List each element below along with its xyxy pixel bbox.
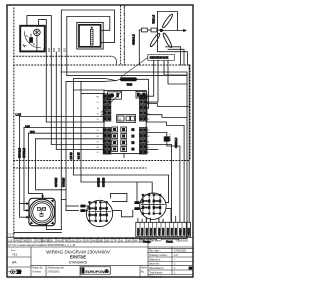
junction box dashed label xyxy=(148,54,175,60)
svg-text:BX: BX xyxy=(141,239,145,242)
wire M1 top feed xyxy=(42,194,44,199)
title text xyxy=(11,249,111,265)
compressor M1 winding circles xyxy=(29,199,55,225)
svg-text:AA: AA xyxy=(12,261,17,265)
svg-text:GY041.5: GY041.5 xyxy=(151,228,153,235)
svg-text:CA: CA xyxy=(78,239,82,242)
svg-text:BI: BI xyxy=(50,239,53,242)
terminal board X1 lower contact columns xyxy=(112,127,134,152)
fan motor M4 blade down-right xyxy=(162,32,173,48)
twisted pair node xyxy=(105,78,120,81)
wire M3 right out xyxy=(166,209,171,223)
labels left of board xyxy=(97,97,100,154)
svg-text:GY131.5: GY131.5 xyxy=(188,228,190,235)
wire fan bottom links xyxy=(166,47,181,65)
boundary dotted line left vertical xyxy=(13,8,15,236)
wire right long bus xyxy=(188,65,190,222)
compressor M3 terminal grid xyxy=(141,194,164,214)
thermostat B1 dial arc xyxy=(23,32,41,48)
svg-text:Ban sheet: Ban sheet xyxy=(150,239,161,242)
boundary dotted short vertical xyxy=(120,6,122,65)
heater B2 outer wire loop xyxy=(61,10,114,72)
svg-text:Drawing number :: Drawing number : xyxy=(149,254,168,257)
svg-text:2.5 15: 2.5 15 xyxy=(70,152,73,160)
boundary curve join xyxy=(112,56,117,65)
heater B2 second wire loop xyxy=(67,17,110,76)
wire labels at riser bundle xyxy=(43,47,66,52)
svg-text:EP9TDE: EP9TDE xyxy=(70,255,86,260)
wire M1 bottom and right xyxy=(46,226,61,230)
terminal strip X2 xyxy=(136,216,191,243)
terminal board X1 relay sub box xyxy=(117,115,136,123)
svg-text:Drawn by: Drawn by xyxy=(32,267,43,270)
svg-text:GY0715: GY0715 xyxy=(103,177,106,187)
wire junction drops to bus xyxy=(146,60,187,102)
svg-text:GY021.5: GY021.5 xyxy=(142,228,144,235)
boundary dash-dot vertical at cable entry xyxy=(123,6,125,65)
thermostat B1 box xyxy=(20,26,45,52)
wire M2 right out xyxy=(113,210,133,217)
svg-text:27/03/2003: 27/03/2003 xyxy=(174,250,187,253)
svg-text:GY101.5: GY101.5 xyxy=(176,228,178,235)
terminal board X1 top terminal left xyxy=(108,92,122,99)
svg-text:OR: OR xyxy=(85,239,89,242)
terminal board X1 top terminal right xyxy=(136,91,146,98)
svg-text:WH 1.5: WH 1.5 xyxy=(152,14,156,23)
terminal board X1 leader xyxy=(101,91,123,116)
svg-text:4GBA1.5: 4GBA1.5 xyxy=(175,137,178,148)
svg-text:Zeichnungs dat.: Zeichnungs dat. xyxy=(47,267,64,270)
svg-text:TR: TR xyxy=(113,239,116,242)
svg-text:GY091.5: GY091.5 xyxy=(172,228,174,235)
svg-text:GY011.5: GY011.5 xyxy=(138,228,140,235)
heater B2 element xyxy=(90,29,93,45)
svg-text:Norm: Norm xyxy=(141,267,147,270)
svg-text:Cond.: Cond. xyxy=(166,239,173,243)
fan motor M4 blade down-left xyxy=(149,32,161,47)
connector M2 left plugs xyxy=(80,205,85,208)
boundary dotted line right vertical xyxy=(189,65,191,160)
svg-text:+23/9/2003: +23/9/2003 xyxy=(176,239,189,242)
compressor M3 circle xyxy=(140,193,166,219)
svg-text:GY031.5: GY031.5 xyxy=(146,228,148,235)
terminal board X1 outline xyxy=(104,91,146,154)
wire M1 left feeds xyxy=(20,116,30,218)
svg-text:Total sheets :: Total sheets : xyxy=(149,271,163,274)
svg-text:JUNCTION BOX: JUNCTION BOX xyxy=(150,57,169,60)
svg-text:BB: BB xyxy=(99,239,103,242)
svg-text:TBC: TBC xyxy=(64,239,69,242)
svg-text:LHT du 4 modele standard insta: LHT du 4 modele standard installation ER… xyxy=(8,244,75,247)
svg-text:N1.5: N1.5 xyxy=(30,131,35,133)
wire mid verticals to M2 xyxy=(66,78,169,210)
wire riser 3 xyxy=(55,52,57,149)
wire fan arrow out xyxy=(163,30,184,32)
svg-text:ALL: ALL xyxy=(71,239,76,242)
svg-text:GY041.5: GY041.5 xyxy=(18,148,21,158)
maker logo xyxy=(81,267,111,274)
svg-text:Issue del :: Issue del : xyxy=(149,263,160,266)
heater B2 box outer xyxy=(77,22,103,49)
terminal board X1 right terminal column xyxy=(139,94,147,154)
svg-text:GY051.5: GY051.5 xyxy=(23,148,26,158)
svg-text:Material nr :: Material nr : xyxy=(149,258,162,261)
svg-text:PH1: PH1 xyxy=(15,239,20,242)
svg-text:GY061.5: GY061.5 xyxy=(159,228,161,235)
svg-text:GY121.5: GY121.5 xyxy=(184,228,186,235)
svg-text:27/03/2003: 27/03/2003 xyxy=(47,271,60,274)
wire B1 terminal 2 riser xyxy=(39,20,47,122)
svg-text:GY0815: GY0815 xyxy=(55,177,58,187)
svg-text:LJF: LJF xyxy=(8,239,13,242)
svg-text:LJF 03: LJF 03 xyxy=(8,236,14,238)
thermostat B1 capillary line xyxy=(36,36,38,52)
fan motor M4 terminals xyxy=(141,28,147,32)
heater B2 box inner thick xyxy=(79,25,101,47)
svg-text:TH2: TH2 xyxy=(22,239,27,242)
fan motor M4 blade up-right xyxy=(161,13,173,28)
svg-text:A.Vema: A.Vema xyxy=(32,271,41,274)
svg-text:WD: WD xyxy=(127,239,131,242)
svg-text:4GBA1.5: 4GBA1.5 xyxy=(132,34,136,45)
drawing frame border xyxy=(7,5,193,277)
M1 corner arrows xyxy=(51,200,54,203)
wire fuse to board xyxy=(138,79,149,108)
wire right staircase from board xyxy=(146,103,189,222)
svg-text:763: 763 xyxy=(12,253,17,257)
svg-text:Replaces nr :: Replaces nr : xyxy=(149,276,163,279)
svg-text:GY051.5: GY051.5 xyxy=(155,228,157,235)
wire long vertical 62 xyxy=(60,72,62,230)
labels right of board xyxy=(147,97,150,154)
boundary dotted line lower horizontal 2 xyxy=(14,167,146,169)
condenser fan M2 terminal grid xyxy=(88,202,111,222)
wire left staircase into board xyxy=(20,116,105,149)
small block texts xyxy=(32,267,146,274)
svg-text:HCB: HCB xyxy=(43,239,48,242)
svg-text:WH 1.5: WH 1.5 xyxy=(170,133,172,141)
compressor M1 box xyxy=(29,198,55,225)
svg-text:621: 621 xyxy=(48,47,51,52)
fan motor M4 hub xyxy=(160,29,163,32)
wire fan loop left side xyxy=(158,12,188,66)
svg-text:BS: BS xyxy=(106,239,110,242)
svg-text:WH5: WH5 xyxy=(127,83,133,86)
wire B1 terminal 1 riser xyxy=(27,16,51,145)
svg-text:651: 651 xyxy=(64,47,67,52)
svg-text:BX: BX xyxy=(134,239,138,242)
thermostat B1 contact block xyxy=(30,38,33,43)
svg-text:WH5: WH5 xyxy=(124,80,130,82)
svg-text:Item: Item xyxy=(11,249,15,252)
svg-text:4.6 15: 4.6 15 xyxy=(77,152,80,160)
fuse leader line xyxy=(121,57,148,77)
svg-text:GY081.5: GY081.5 xyxy=(167,228,169,235)
svg-text:Rev. date :: Rev. date : xyxy=(149,250,161,253)
boundary dotted line lower horizontal 1 xyxy=(14,160,190,162)
thermostat B1 sensor bulb xyxy=(34,29,41,36)
boundary dotted line upper horizontal xyxy=(14,55,112,57)
wire bottom bus xyxy=(14,231,61,233)
svg-text:641: 641 xyxy=(58,47,61,52)
right table texts xyxy=(149,250,192,279)
wire fan feed xyxy=(138,30,140,65)
compressor M1 center terminals xyxy=(37,207,40,210)
svg-text:L 1.5: L 1.5 xyxy=(16,114,22,117)
boundary dotted line top horizontal xyxy=(14,64,190,66)
connector M3 left plugs xyxy=(134,201,139,204)
svg-text:Sheet/blad nr :: Sheet/blad nr : xyxy=(149,267,165,270)
fuse F1 inline black xyxy=(120,77,138,81)
svg-text:GY0615: GY0615 xyxy=(98,177,101,187)
condenser fan M2 circle xyxy=(86,200,112,226)
wire board bottom stub xyxy=(123,154,125,158)
svg-text:611: 611 xyxy=(43,47,46,52)
projection symbol xyxy=(9,270,22,274)
svg-text:HU5: HU5 xyxy=(92,239,97,242)
wire B2 bottom drops xyxy=(61,71,187,73)
svg-text:GY111.5: GY111.5 xyxy=(180,228,182,235)
svg-text:HL4: HL4 xyxy=(57,239,62,242)
terminal board X1 left terminal column xyxy=(103,94,111,154)
svg-text:GY0915: GY0915 xyxy=(63,177,66,187)
svg-text:631: 631 xyxy=(53,47,56,52)
legend strip texts xyxy=(7,233,189,248)
wire M2 top loop xyxy=(111,193,127,201)
svg-text:171: 171 xyxy=(174,254,179,257)
svg-text:GY071.5: GY071.5 xyxy=(163,228,165,235)
title block xyxy=(7,237,193,277)
svg-text:STANDARD: STANDARD xyxy=(69,260,88,264)
